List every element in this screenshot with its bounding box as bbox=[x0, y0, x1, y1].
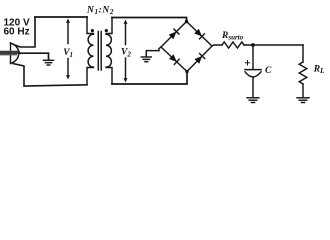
resistor RL bbox=[299, 62, 307, 84]
AC plug source 120V 60Hz bbox=[0, 43, 21, 64]
diode D4 (bottom to right) bbox=[194, 54, 204, 64]
transformer core bbox=[98, 32, 101, 71]
voltage arrow V1 bbox=[66, 19, 70, 80]
diode D1 (left to top) bbox=[169, 29, 179, 39]
diode D2 (top to right) bbox=[194, 29, 204, 39]
wire source bottom lead bbox=[13, 64, 87, 87]
node bridge bottom bbox=[185, 70, 188, 73]
capacitor C plus sign bbox=[245, 61, 249, 65]
wire load branch bbox=[302, 45, 304, 62]
resistor Rsurto bbox=[222, 42, 244, 48]
wire source top lead bbox=[14, 17, 36, 47]
transformer T1 primary winding bbox=[87, 17, 94, 85]
diode D3 (left to bottom) bbox=[169, 54, 179, 64]
ground (load) bbox=[297, 98, 309, 103]
svg-text:V1: V1 bbox=[63, 48, 73, 59]
wire bridge output bbox=[212, 45, 222, 46]
svg-text:RL: RL bbox=[313, 64, 325, 75]
bridge rectifier diamond wires bbox=[161, 22, 212, 72]
capacitor C plates bbox=[245, 70, 261, 77]
ground (source) bbox=[44, 60, 54, 65]
svg-text:V2: V2 bbox=[121, 48, 131, 59]
wire load bottom bbox=[302, 84, 304, 97]
wire source to chassis ground bbox=[19, 53, 49, 60]
node capacitor tap bbox=[251, 43, 255, 47]
wire primary top bbox=[35, 16, 87, 18]
node bridge top bbox=[185, 20, 188, 23]
wire output node bbox=[244, 44, 303, 46]
wire capacitor top bbox=[252, 45, 254, 69]
svg-text:N1:N2: N1:N2 bbox=[86, 6, 114, 17]
wire capacitor bottom bbox=[252, 77, 254, 97]
ground (bridge) bbox=[141, 57, 151, 62]
svg-text:C: C bbox=[265, 66, 272, 76]
wire secondary top bbox=[112, 18, 187, 22]
voltage arrow V2 bbox=[124, 20, 128, 83]
ground (capacitor) bbox=[247, 98, 259, 103]
svg-text:60 Hz: 60 Hz bbox=[4, 26, 30, 37]
polarity dot primary bbox=[91, 29, 94, 32]
transformer T1 secondary winding bbox=[106, 18, 112, 85]
wire bridge left to ground bbox=[146, 47, 161, 57]
svg-text:Rsurto: Rsurto bbox=[221, 31, 244, 42]
polarity dot secondary bbox=[105, 29, 108, 32]
wire secondary bottom bbox=[112, 72, 187, 85]
